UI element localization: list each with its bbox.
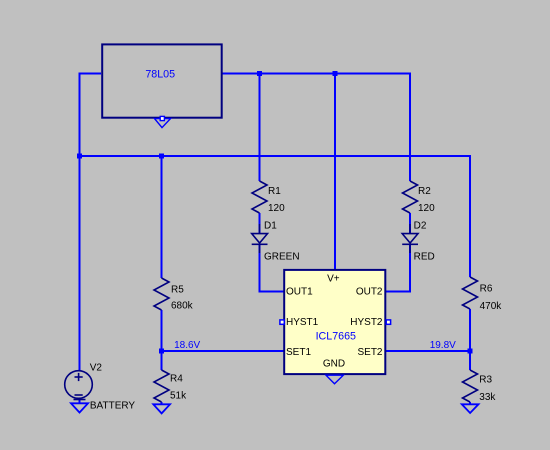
wire D1 to OUT1 xyxy=(260,244,284,291)
junction at V+ top tap xyxy=(333,71,338,76)
wire R6 to SET2 node to R3 xyxy=(469,309,471,370)
junction at battery rail left xyxy=(77,154,82,159)
svg-text:D1: D1 xyxy=(264,220,277,231)
svg-text:OUT1: OUT1 xyxy=(286,287,313,298)
wire R1 to D1 xyxy=(259,213,261,234)
svg-text:GREEN: GREEN xyxy=(264,252,300,263)
svg-text:RED: RED xyxy=(414,252,435,263)
pin HYST2 stub xyxy=(386,320,390,324)
resistor R4 xyxy=(154,370,169,402)
wire battery bus to R6 xyxy=(80,156,471,277)
svg-text:120: 120 xyxy=(268,203,285,214)
wire tap down to IC V+ xyxy=(334,74,336,270)
svg-text:ICL7665: ICL7665 xyxy=(316,331,356,343)
svg-text:BATTERY: BATTERY xyxy=(90,400,136,411)
wire D2 to OUT2 xyxy=(386,244,410,291)
svg-text:18.6V: 18.6V xyxy=(174,340,200,351)
op-amp U1 ICL7665 body xyxy=(284,270,385,374)
ground pin marker of 78L05 xyxy=(155,116,171,127)
wire SET2 to IC xyxy=(386,350,470,352)
diode D1 GREEN LED xyxy=(252,224,268,253)
svg-text:19.8V: 19.8V xyxy=(430,340,456,351)
ground below battery xyxy=(71,403,88,412)
svg-text:680k: 680k xyxy=(171,301,194,312)
svg-text:R5: R5 xyxy=(171,285,184,296)
svg-text:R3: R3 xyxy=(479,375,492,386)
wire tap down to R1 xyxy=(259,74,261,182)
wire battery + to 78L05 input and down xyxy=(80,74,102,371)
resistor R2 xyxy=(403,181,418,213)
wire R4 to ground xyxy=(161,402,163,404)
junction node SET2 19.8V xyxy=(468,349,473,354)
node SET1 voltage label 18.6V xyxy=(174,340,200,351)
wire R3 to ground xyxy=(469,402,471,404)
diode D2 RED LED xyxy=(402,224,418,253)
wire top 5V rail from 78L05 output to R2 xyxy=(223,74,410,182)
ground pin marker of ICL7665 xyxy=(326,375,343,384)
wire R5 to SET1 node to R4 xyxy=(161,310,163,370)
wire tap down to R5 xyxy=(161,156,163,278)
resistor R6 xyxy=(463,277,478,309)
wire R2 to D2 xyxy=(409,213,411,234)
svg-text:33k: 33k xyxy=(479,392,496,403)
svg-text:R1: R1 xyxy=(268,186,281,197)
svg-text:470k: 470k xyxy=(480,301,503,312)
svg-text:D2: D2 xyxy=(414,220,427,231)
svg-text:HYST2: HYST2 xyxy=(350,317,383,328)
svg-text:GND: GND xyxy=(323,359,345,370)
svg-text:R6: R6 xyxy=(480,284,493,295)
svg-text:V2: V2 xyxy=(90,362,103,373)
resistor R1 xyxy=(252,181,267,213)
ground below R3 xyxy=(462,404,479,413)
resistor R3 xyxy=(463,370,478,402)
junction node SET1 18.6V xyxy=(159,349,164,354)
svg-text:V+: V+ xyxy=(327,274,340,285)
battery source V2 xyxy=(65,371,93,400)
svg-text:HYST1: HYST1 xyxy=(286,317,319,328)
svg-text:SET1: SET1 xyxy=(286,347,311,358)
svg-text:OUT2: OUT2 xyxy=(356,287,383,298)
wire SET1 to IC xyxy=(162,350,284,352)
ground below R4 xyxy=(153,404,170,413)
node SET2 voltage label 19.8V xyxy=(430,340,456,351)
svg-text:51k: 51k xyxy=(170,390,187,401)
svg-text:R4: R4 xyxy=(170,373,183,384)
svg-text:R2: R2 xyxy=(418,186,431,197)
svg-text:120: 120 xyxy=(418,203,435,214)
junction at R5 top tap xyxy=(159,154,164,159)
junction at R1 top tap xyxy=(257,71,262,76)
resistor R5 xyxy=(154,278,169,310)
wire battery - to ground xyxy=(79,398,81,403)
pin HYST1 stub xyxy=(280,320,284,324)
svg-text:78L05: 78L05 xyxy=(145,69,175,81)
regulator U3 78L05 box xyxy=(102,44,222,117)
svg-text:SET2: SET2 xyxy=(357,347,382,358)
